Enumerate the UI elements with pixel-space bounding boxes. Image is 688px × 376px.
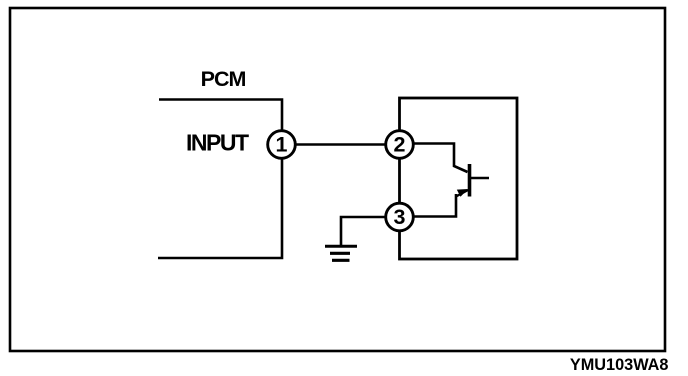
wire pin1 to pin2 bbox=[282, 143, 400, 146]
svg-text:1: 1 bbox=[276, 132, 288, 156]
ground bbox=[325, 246, 357, 260]
wire pin2 to transistor collector bbox=[400, 144, 468, 173]
wire pin3 to ground bbox=[341, 217, 400, 245]
svg-text:YMU103WA8: YMU103WA8 bbox=[570, 356, 669, 374]
wire transistor emitter to pin3 bbox=[400, 194, 456, 217]
svg-text:3: 3 bbox=[394, 205, 406, 229]
transistor Q1 bbox=[456, 164, 489, 197]
PCM module box bbox=[158, 100, 282, 259]
svg-text:PCM: PCM bbox=[201, 67, 246, 91]
node pin 1 bbox=[268, 131, 296, 159]
node pin 2 bbox=[386, 131, 414, 159]
component box bbox=[400, 98, 518, 259]
svg-text:2: 2 bbox=[394, 132, 406, 156]
svg-text:INPUT: INPUT bbox=[186, 130, 249, 156]
node pin 3 bbox=[386, 203, 414, 231]
